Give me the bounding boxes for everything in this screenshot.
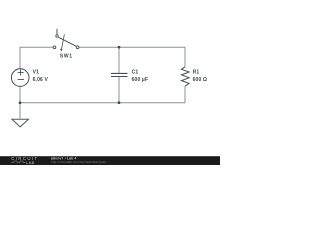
svg-text:600 Ω: 600 Ω (193, 77, 208, 83)
svg-text:SW1: SW1 (60, 53, 73, 59)
svg-text:C1: C1 (132, 69, 139, 75)
svg-text:6.06 V: 6.06 V (33, 77, 49, 83)
svg-text:V1: V1 (33, 69, 39, 75)
svg-text:600 µF: 600 µF (132, 77, 149, 83)
svg-text:LAB: LAB (26, 160, 34, 165)
svg-text:R1: R1 (193, 69, 200, 75)
svg-text:http://circuitlab.com/c/pr4acb: http://circuitlab.com/c/pr4acb43a7jvq2z (51, 160, 107, 164)
